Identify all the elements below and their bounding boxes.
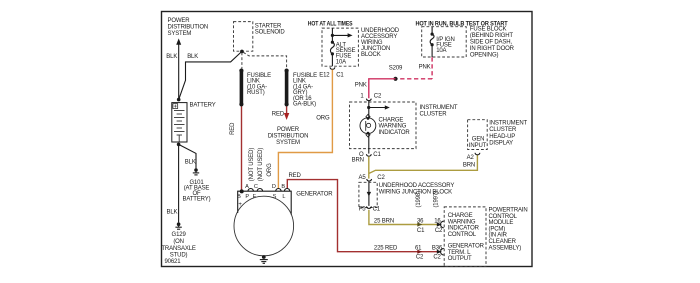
junction battery negative node bbox=[177, 143, 181, 147]
svg-text:DISTRIBUTION: DISTRIBUTION bbox=[268, 134, 309, 140]
svg-text:CHARGE: CHARGE bbox=[448, 213, 473, 219]
svg-text:S209: S209 bbox=[389, 65, 403, 71]
svg-text:IN RIGHT DOOR: IN RIGHT DOOR bbox=[470, 46, 515, 52]
svg-text:FUSE BLOCK: FUSE BLOCK bbox=[470, 27, 507, 33]
svg-text:PNK: PNK bbox=[355, 83, 367, 89]
ground G129 bbox=[161, 222, 195, 258]
svg-text:OPENING): OPENING) bbox=[470, 52, 499, 58]
svg-text:(NOT USED): (NOT USED) bbox=[258, 148, 264, 182]
svg-text:(ON: (ON bbox=[173, 239, 184, 245]
svg-text:INSTRUMENT: INSTRUMENT bbox=[489, 120, 527, 126]
svg-text:CHARGE: CHARGE bbox=[379, 117, 404, 123]
svg-text:SOLENOID: SOLENOID bbox=[255, 30, 286, 36]
wire cluster internal to indicator bbox=[368, 100, 370, 118]
fusible link 10 GA (RUST) bbox=[239, 69, 271, 107]
indicator lamp CHARGE WARNING INDICATOR bbox=[360, 114, 410, 137]
svg-text:A2: A2 bbox=[467, 155, 475, 161]
svg-text:RED: RED bbox=[289, 173, 302, 179]
svg-text:(BEHIND RIGHT: (BEHIND RIGHT bbox=[470, 33, 514, 39]
junction battery positive node bbox=[177, 98, 181, 102]
svg-text:L: L bbox=[282, 194, 285, 200]
svg-text:C2: C2 bbox=[435, 228, 443, 234]
svg-text:C2: C2 bbox=[433, 255, 441, 261]
svg-text:WARNING: WARNING bbox=[379, 124, 407, 130]
svg-text:E12: E12 bbox=[319, 73, 330, 79]
svg-text:A5: A5 bbox=[358, 175, 366, 181]
svg-text:(1997): (1997) bbox=[433, 191, 439, 208]
instrument cluster head-up display bbox=[468, 120, 528, 150]
wire junction block internal pass-through with arrow bbox=[367, 181, 371, 206]
svg-text:BATTERY: BATTERY bbox=[190, 102, 216, 108]
generator bbox=[234, 184, 333, 256]
connector arrows PCM charge warning input, pins 36 C1 (1998) / 16 C2 (1997) bbox=[416, 191, 444, 234]
svg-text:D: D bbox=[272, 184, 276, 190]
svg-text:B36: B36 bbox=[432, 246, 443, 252]
connector pin F5 C1 junction block bbox=[359, 206, 381, 212]
svg-text:ORG: ORG bbox=[267, 163, 273, 177]
svg-text:BRN: BRN bbox=[352, 158, 364, 164]
wire ORG junction block to generator terminal S bbox=[278, 70, 332, 189]
svg-text:A: A bbox=[245, 184, 249, 190]
svg-text:16: 16 bbox=[434, 218, 441, 224]
node POWER DISTRIBUTION SYSTEM (mid) bbox=[268, 127, 309, 146]
svg-text:CLEANER: CLEANER bbox=[489, 239, 517, 245]
wire BLK battery negative to G129 bbox=[167, 144, 179, 222]
svg-text:CLUSTER: CLUSTER bbox=[489, 127, 517, 133]
fusible link 14 GA (GRY) bbox=[285, 69, 318, 108]
svg-text:225 RED: 225 RED bbox=[374, 246, 398, 252]
svg-text:STUD): STUD) bbox=[170, 253, 188, 259]
svg-text:RUST): RUST) bbox=[247, 90, 265, 96]
svg-text:HEAD-UP: HEAD-UP bbox=[489, 134, 515, 140]
svg-text:SYSTEM: SYSTEM bbox=[276, 140, 300, 146]
wire PNK S209 to instrument cluster C2 bbox=[355, 79, 396, 99]
svg-text:UNDERHOOD ACCESSORY: UNDERHOOD ACCESSORY bbox=[379, 183, 455, 189]
svg-text:RED: RED bbox=[272, 112, 285, 118]
svg-text:TRANSAXLE: TRANSAXLE bbox=[161, 246, 195, 252]
svg-text:BLK: BLK bbox=[166, 54, 177, 60]
junction internal cluster dot with arrow bbox=[367, 105, 390, 109]
wire BRN cluster C1 down to A5 and branch bbox=[352, 156, 369, 178]
junction starter solenoid battery terminal bbox=[240, 50, 244, 54]
wire dashed solenoid terminal to fusible link F2 bbox=[243, 52, 286, 68]
svg-text:BLK: BLK bbox=[167, 210, 178, 216]
wire junction block internal bbox=[331, 28, 333, 42]
svg-text:TERM. L: TERM. L bbox=[448, 250, 471, 256]
connector pin O C1 instrument cluster bbox=[359, 152, 382, 158]
svg-text:C: C bbox=[254, 184, 258, 190]
svg-text:(PCM): (PCM) bbox=[489, 226, 506, 232]
battery bbox=[172, 102, 216, 142]
svg-text:MODULE: MODULE bbox=[489, 220, 514, 226]
svg-text:C1: C1 bbox=[373, 152, 381, 158]
svg-text:WARNING: WARNING bbox=[448, 219, 476, 225]
svg-text:C1: C1 bbox=[336, 73, 344, 79]
wire indicator to connector O C1 bbox=[368, 134, 370, 154]
svg-text:GA-BLK): GA-BLK) bbox=[293, 102, 316, 108]
svg-text:BLK: BLK bbox=[187, 54, 198, 60]
node POWER DISTRIBUTION SYSTEM (top-left off-page arrow) bbox=[168, 18, 209, 45]
svg-text:HOT AT ALL TIMES: HOT AT ALL TIMES bbox=[308, 21, 353, 27]
svg-text:36: 36 bbox=[417, 218, 424, 224]
svg-text:(NOT USED): (NOT USED) bbox=[249, 148, 255, 182]
svg-text:25 BRN: 25 BRN bbox=[374, 218, 394, 224]
svg-text:ORG: ORG bbox=[316, 115, 330, 121]
svg-text:BLOCK: BLOCK bbox=[361, 52, 381, 58]
svg-text:INDICATOR: INDICATOR bbox=[448, 226, 480, 232]
svg-text:GEN: GEN bbox=[472, 136, 485, 142]
svg-text:P: P bbox=[245, 194, 249, 200]
junction internal feed dot with arrow bbox=[331, 33, 353, 37]
connector pin 1 C2 instrument cluster bbox=[360, 93, 382, 100]
svg-text:(1998): (1998) bbox=[416, 191, 422, 208]
svg-text:OUTPUT: OUTPUT bbox=[448, 256, 472, 262]
svg-text:POWER: POWER bbox=[168, 18, 191, 24]
splice S209 bbox=[389, 65, 403, 81]
svg-text:INDICATOR: INDICATOR bbox=[379, 130, 411, 136]
svg-text:C2: C2 bbox=[416, 255, 424, 261]
connector pin A5 C2 junction block bbox=[358, 175, 385, 181]
underhood accessory wiring junction block (fuse box) bbox=[322, 28, 400, 66]
svg-text:S: S bbox=[273, 194, 277, 200]
svg-text:POWERTRAIN: POWERTRAIN bbox=[489, 208, 528, 214]
wire BRN branch to head-up display A2 bbox=[369, 155, 478, 174]
ground generator case bbox=[260, 255, 268, 263]
svg-text:PNK: PNK bbox=[419, 64, 431, 70]
svg-text:B: B bbox=[281, 184, 285, 190]
wire RED fusible link F2 to power distribution (off-page arrow) bbox=[272, 107, 290, 121]
starter solenoid bbox=[234, 22, 286, 52]
underhood accessory wiring junction block (pass-through) bbox=[359, 182, 454, 207]
svg-text:CONTROL: CONTROL bbox=[489, 214, 518, 220]
svg-text:INSTRUMENT: INSTRUMENT bbox=[420, 105, 458, 111]
connector E12 / C1 bbox=[319, 67, 344, 78]
svg-text:CONTROL: CONTROL bbox=[448, 232, 477, 238]
svg-text:SIDE OF DASH,: SIDE OF DASH, bbox=[470, 40, 513, 46]
wire BLK battery positive to power distribution arrow bbox=[166, 45, 178, 100]
wire BLK battery negative to G101 bbox=[179, 144, 196, 168]
connector arrows PCM generator term L output, pins 61 C2 / B36 C2 bbox=[415, 246, 444, 261]
svg-text:GENERATOR: GENERATOR bbox=[448, 244, 485, 250]
fuse I/P IGN 10A bbox=[430, 27, 455, 57]
svg-text:BATTERY): BATTERY) bbox=[183, 197, 211, 203]
svg-text:SYSTEM: SYSTEM bbox=[168, 31, 192, 37]
powertrain control module PCM bbox=[444, 207, 527, 267]
svg-text:61: 61 bbox=[415, 246, 422, 252]
svg-text:STARTER: STARTER bbox=[255, 24, 282, 30]
svg-text:B: B bbox=[237, 194, 241, 200]
junction generator B+ terminal bbox=[240, 189, 244, 193]
svg-text:(IN AIR: (IN AIR bbox=[489, 233, 508, 239]
svg-text:F5: F5 bbox=[359, 206, 367, 212]
svg-text:DISPLAY: DISPLAY bbox=[489, 141, 513, 147]
ground G101 bbox=[183, 168, 211, 202]
svg-text:CLUSTER: CLUSTER bbox=[420, 111, 448, 117]
svg-text:C2: C2 bbox=[374, 93, 382, 99]
connector pin A2 head-up display bbox=[463, 153, 480, 169]
svg-text:BRN: BRN bbox=[463, 163, 475, 169]
svg-text:C1: C1 bbox=[417, 228, 425, 234]
wire RED generator L terminal to PCM bbox=[287, 173, 440, 252]
fuse block (dash) bbox=[422, 27, 515, 59]
svg-text:GENERATOR: GENERATOR bbox=[296, 191, 333, 197]
wire PNK fuse to S209 (dashed) bbox=[397, 57, 433, 79]
instrument cluster bbox=[350, 102, 458, 149]
svg-text:BLK: BLK bbox=[185, 159, 196, 165]
svg-text:C1: C1 bbox=[373, 206, 381, 212]
wire 25 BRN junction block to PCM bbox=[369, 210, 440, 225]
wire dashed solenoid terminal to fusible link F1 bbox=[241, 53, 243, 69]
wire RED fusible link F1 to generator B+ bbox=[230, 107, 242, 191]
diagram border frame bbox=[162, 12, 533, 267]
svg-text:C2: C2 bbox=[377, 175, 385, 181]
svg-text:ASSEMBLY): ASSEMBLY) bbox=[489, 245, 522, 251]
label not used pins bbox=[249, 148, 264, 182]
svg-text:INPUT: INPUT bbox=[469, 143, 487, 149]
wire BLK battery positive to starter solenoid junction bbox=[179, 51, 242, 99]
svg-text:90621: 90621 bbox=[165, 259, 182, 265]
svg-text:10A: 10A bbox=[336, 59, 346, 65]
svg-text:RED: RED bbox=[230, 122, 236, 135]
svg-text:DISTRIBUTION: DISTRIBUTION bbox=[168, 24, 209, 30]
svg-text:G129: G129 bbox=[172, 232, 187, 238]
fuse ALT SENSE 10A bbox=[330, 41, 355, 67]
svg-text:POWER: POWER bbox=[277, 127, 300, 133]
svg-text:10A: 10A bbox=[436, 48, 446, 54]
